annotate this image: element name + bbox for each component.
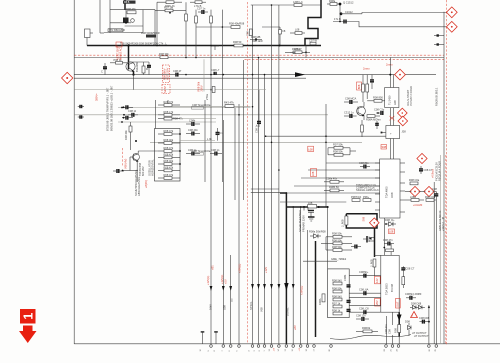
IC pins right [400, 163, 405, 212]
svg-text:R07 1k: R07 1k [332, 301, 341, 305]
svg-text:R08 47k: R08 47k [164, 165, 174, 169]
cap x377 [376, 121, 378, 124]
svg-text:V08 (4V): V08 (4V) [124, 159, 128, 169]
grey bus y137 [266, 135, 391, 137]
svg-text:C08 1J: C08 1J [128, 109, 137, 113]
cap C08b D+ x372 [371, 75, 373, 80]
R08A vertical resistor left of loop [322, 294, 325, 302]
resistor R08_50 on bus45 [234, 44, 243, 47]
ladder resistors [164, 100, 184, 179]
red dashed vertical mid [247, 2, 249, 343]
caps on left pin wires [356, 270, 369, 321]
svg-text:2xxxx: 2xxxx [386, 63, 393, 67]
svg-text:D08 D08: D08 D08 [411, 301, 422, 305]
ladder left stubs [158, 104, 164, 106]
svg-text:J08: J08 [402, 130, 407, 134]
svg-text:C08 1n: C08 1n [211, 148, 220, 152]
red L08 label [389, 229, 395, 234]
vertical resistor in loop [345, 216, 348, 225]
resistors P08 pair [352, 199, 360, 202]
svg-text:R08 47k: R08 47k [164, 152, 174, 156]
L08 component to staircase [290, 32, 305, 34]
svg-text:R08 50k: R08 50k [332, 232, 342, 236]
svg-text:P08+: P08+ [363, 195, 370, 199]
svg-text:C08 80n: C08 80n [359, 161, 369, 165]
svg-text:TDA 3653: TDA 3653 [385, 283, 389, 295]
cap C08 47 on bus74 [175, 73, 177, 77]
svg-text:C08 L7: C08 L7 [211, 68, 220, 72]
dots on right bus [179, 133, 181, 135]
svg-text:C8: C8 [282, 29, 286, 33]
svg-text:C08 TimeA/C0a: C08 TimeA/C0a [192, 149, 211, 153]
staircase thick wire [305, 0, 321, 46]
svg-text:U08: U08 [223, 305, 227, 310]
cap C08/C08A [351, 246, 355, 248]
wire vertical x110 top [109, 0, 111, 33]
svg-text:V08: V08 [260, 307, 264, 312]
wire v256 [258, 58, 260, 344]
svg-text:C08 C2p: C08 C2p [374, 107, 385, 111]
svg-text:L08: L08 [311, 171, 315, 176]
red diamond right of 4605 top [417, 153, 427, 163]
svg-text:C08_6A: C08_6A [359, 288, 369, 292]
resistor R08 L7k horiz at top [157, 1, 182, 3]
red diamond pair below TL [397, 108, 407, 118]
ladder right bus [172, 104, 180, 106]
svg-text:R08 5k0: R08 5k0 [332, 278, 342, 282]
svg-text:R43 47k: R43 47k [224, 101, 234, 105]
wire v x340 [339, 4, 341, 22]
wire from pin right to v436 [405, 191, 411, 193]
wire v315 thick lower [315, 241, 317, 337]
R08/2k resistor bottom [363, 330, 372, 333]
svg-text:OUT: OUT [396, 301, 400, 307]
svg-text:D08: D08 [405, 319, 410, 323]
svg-text:R08a 50k/R08: R08a 50k/R08 [309, 230, 326, 234]
svg-text:C312 1n: C312 1n [344, 110, 354, 114]
wire v235 [234, 108, 236, 200]
svg-text:R0/J8.0B J8/3.1: R0/J8.0B J8/3.1 [435, 87, 439, 106]
svg-text:16V/BL: 16V/BL [286, 307, 290, 316]
arrow on bus y74 [295, 72, 305, 77]
wire v x168 feeds [167, 100, 169, 106]
grey bus y122 [118, 121, 216, 123]
svg-text:R08 C0a: R08 C0a [425, 195, 436, 199]
svg-text:SIGNAL AMPL/CLK: SIGNAL AMPL/CLK [356, 188, 379, 192]
cap C2025 b [122, 117, 126, 119]
svg-text:+B1: +B1 [211, 265, 215, 270]
cap C07 1n top [198, 11, 202, 13]
cap c at y171 [113, 170, 117, 172]
svg-text:C08 C7: C08 C7 [406, 267, 415, 271]
svg-text:2xxxx: 2xxxx [363, 67, 370, 71]
svg-text:+8V: +8V [293, 325, 297, 330]
svg-text:16kV: 16kV [209, 304, 213, 310]
wire v x93 from bus45 [90, 32, 93, 34]
svg-text:L 9k: L 9k [207, 137, 213, 141]
svg-text:C08 1n: C08 1n [255, 124, 259, 133]
svg-text:+5V: +5V [223, 279, 227, 284]
wire x131 below transistor [133, 75, 135, 90]
svg-text:SCHALTNETZTEIL: SCHALTNETZTEIL [298, 209, 302, 232]
svg-text:+26V(L): +26V(L) [300, 286, 304, 295]
vertical resistor on x196 [195, 16, 198, 23]
thick vertical from bus45 to transistor [128, 46, 130, 63]
17LB cap [333, 21, 352, 23]
red diamond in loop [369, 218, 379, 228]
svg-text:GME_7M9k2: GME_7M9k2 [331, 257, 347, 261]
svg-text:+3F/3.2 - J8: +3F/3.2 - J8 [441, 217, 445, 231]
wires from 4605 left pins to buses [326, 162, 380, 164]
wire vertical x125 top [124, 0, 126, 10]
svg-text:C08b: C08b [343, 274, 347, 281]
svg-text:PCS.8V # FOUR: PCS.8V # FOUR [409, 86, 413, 106]
cap C08 C7 [420, 166, 422, 169]
resistor R8B top [123, 1, 136, 4]
transistor T08 [133, 154, 140, 161]
svg-text:R08: R08 [394, 328, 398, 333]
svg-text:R08 50: R08 50 [233, 40, 242, 44]
svg-text:220V: 220V [200, 85, 204, 91]
red box mid-left [308, 146, 314, 151]
vertical x217 [221, 10, 223, 182]
grey vertical right inner [440, 155, 442, 344]
resistor pair R07 50k / R08 50k upper [334, 146, 343, 149]
svg-text:R08 50k: R08 50k [332, 245, 342, 249]
resistor R08/C0a above diamonds [410, 182, 418, 185]
L08 box above line [308, 205, 317, 208]
svg-text:C: C [101, 70, 103, 74]
svg-text:C07 1n: C07 1n [197, 7, 206, 11]
wire v x155 [154, 10, 156, 46]
svg-text:IC08: IC08 [390, 192, 394, 198]
svg-text:1: 1 [21, 313, 35, 320]
svg-text:R08 40k/R08: R08 40k/R08 [229, 22, 245, 26]
caps C08 80n near 4605 [360, 166, 364, 168]
MOSFET Q2 right [366, 236, 368, 243]
vertical x205 [204, 100, 206, 182]
svg-text:BUL38D: BUL38D [135, 62, 139, 72]
wire y189 [251, 188, 279, 190]
svg-text:+12V(L): +12V(L) [220, 275, 224, 284]
svg-text:R07 1M: R07 1M [164, 5, 173, 9]
cap C08 47n above IC [384, 243, 388, 245]
wires below TL box [389, 108, 391, 126]
resistor R08A MOhm horizontal [367, 115, 375, 118]
wire from cluster right to diamond1 y12.5 [362, 13, 447, 14]
wire v x143 [142, 10, 144, 33]
thick elbow into v287 [251, 192, 280, 194]
svg-text:R08 5k0: R08 5k0 [332, 294, 342, 298]
svg-text:+26V(L): +26V(L) [238, 264, 242, 273]
svg-text:C08 47n: C08 47n [384, 324, 388, 334]
svg-text:S08: S08 [382, 145, 387, 149]
red dashes x122 [122, 148, 124, 166]
svg-text:B08: B08 [357, 84, 361, 89]
cap column x348 [347, 284, 351, 286]
thick v374 down from loop [374, 228, 376, 257]
svg-text:PRIMAR 220V: PRIMAR 220V [302, 215, 306, 232]
svg-text:C08 TimeA/C0a: C08 TimeA/C0a [192, 103, 211, 107]
svg-text:R07 50k: R07 50k [333, 143, 343, 147]
resistor R08a to C1512 [327, 3, 340, 5]
red label box mid [311, 169, 317, 177]
resistor R43 47k [225, 105, 234, 108]
wire h y62 [129, 61, 150, 63]
red dashed secondary horizontal [245, 58, 445, 60]
vertical x186 [185, 2, 187, 57]
box outline loop [155, 129, 181, 182]
svg-text:R08a: R08a [329, 0, 336, 3]
C08 1J cap left [128, 114, 132, 116]
grey bus y142 [150, 141, 362, 143]
cap C2025 a [122, 106, 126, 108]
svg-text:600 26V: 600 26V [141, 166, 145, 176]
C1512 dot [339, 3, 342, 6]
resistor R08 500 [146, 35, 156, 38]
thick h y207 to transistor [286, 206, 327, 208]
cap C08 1n x215 [210, 153, 215, 155]
svg-text:R08b 50: R08b 50 [329, 185, 339, 189]
red X marker on wires [390, 116, 395, 120]
wire h y7.7 [251, 4, 321, 6]
red label box far left [357, 82, 362, 90]
svg-text:+8(0V): +8(0V) [144, 180, 148, 188]
wire v308 [307, 230, 309, 344]
red diamond 1 [446, 7, 457, 18]
cap C08 1n on x259 [258, 118, 260, 122]
svg-text:C08a 40n: C08a 40n [326, 177, 338, 181]
svg-text:L08A: L08A [410, 195, 416, 199]
svg-text:Q C1512: Q C1512 [343, 0, 354, 4]
svg-text:26V: 26V [375, 300, 379, 305]
resistor stack R08 50k x3 [333, 235, 342, 238]
red marker 1 with down arrow bottom-left [19, 309, 37, 343]
bus y45 thick [87, 45, 321, 47]
svg-text:C07 W: C07 W [309, 38, 317, 42]
loop box with resistor ladder bottom [328, 269, 350, 318]
svg-text:12V: 12V [375, 278, 379, 283]
small components x128-135 y120-140 [129, 126, 132, 132]
diode D08_D+ below 4605 [386, 223, 396, 225]
long horizontals from ladder to right [172, 106, 251, 108]
J08 connector box [386, 126, 400, 139]
svg-text:R28 47k: R28 47k [164, 100, 174, 104]
svg-text:C08_C8: C08_C8 [359, 307, 369, 311]
cap C312 1n [344, 115, 350, 117]
cap C8 vertical x280 [279, 27, 281, 30]
wire v210 [210, 10, 212, 344]
red dashed vertical right inner [445, 155, 447, 345]
wire v261 [264, 75, 266, 344]
resistor R07 1M [165, 9, 173, 12]
red diamond 2 [446, 21, 457, 32]
svg-text:R08 47k: R08 47k [164, 129, 174, 133]
thick output wire with arrow below IC [398, 312, 400, 336]
vertical x157 [156, 2, 158, 45]
svg-text:AT OUTPUT: AT OUTPUT [413, 334, 429, 338]
pin numbers below border [200, 347, 437, 351]
wire v238 [238, 104, 240, 344]
ground symbol [308, 216, 315, 218]
svg-text:R08 50k: R08 50k [332, 238, 342, 242]
transistor right mid [357, 107, 366, 116]
IC TDA4605 [380, 159, 400, 218]
svg-text:MAINS AC: MAINS AC [119, 47, 123, 60]
svg-text:D08_D+: D08_D+ [385, 218, 395, 222]
resistor R08 40k [231, 26, 240, 29]
svg-text:L08: L08 [295, 28, 300, 32]
transformer T sym [211, 45, 219, 47]
svg-text:R08 1k: R08 1k [332, 308, 341, 312]
junction dot on bus45 x279 [279, 45, 281, 47]
svg-text:R08 47k: R08 47k [164, 173, 174, 177]
diode D lower [310, 235, 321, 237]
wires into TL box from top [389, 58, 391, 89]
resistor R08 800 [374, 99, 382, 102]
resistor vertical right [402, 277, 405, 285]
wire h y78.2 thin [74, 77, 306, 79]
wire v266 [271, 5, 273, 344]
pin sym b [215, 332, 217, 344]
svg-text:L08: L08 [389, 230, 394, 234]
bottom connector pins [201, 331, 218, 344]
grey vertical x204 [203, 59, 205, 91]
red hatched box 1 [162, 65, 170, 94]
IC pins left [375, 163, 380, 210]
red diamonds right of 4605 mid [410, 186, 420, 196]
svg-text:TL 5430: TL 5430 [388, 95, 392, 105]
svg-text:R08 800: R08 800 [373, 95, 383, 99]
wire v436 down [435, 196, 437, 344]
bridge rectifier TR1 B80C800 [85, 29, 91, 38]
red pin boxes left [375, 276, 381, 284]
L08W component on y52 [290, 51, 306, 53]
dot R08 MB [255, 38, 257, 40]
capacitor C8b circle [131, 19, 135, 23]
cap C1 vertical x217 [217, 128, 219, 133]
base resistor P08 [116, 62, 123, 65]
svg-text:R08 47k: R08 47k [164, 146, 174, 150]
wire v280 [278, 5, 280, 344]
IC left pin wires [349, 275, 381, 277]
inductor L08A [411, 199, 419, 202]
caps C08a 40n / R08b 50 / C08 50n column [330, 180, 339, 183]
svg-text:TDA 4605: TDA 4605 [385, 186, 389, 198]
svg-text:R08/2k: R08/2k [362, 326, 371, 330]
svg-text:L08: L08 [308, 201, 313, 205]
wire h y27 segment2 [262, 26, 280, 28]
vertical resistor x362 y126-132 [361, 125, 364, 132]
svg-text:R08A: R08A [318, 298, 322, 305]
svg-text:C08: C08 [246, 31, 250, 36]
node dot on y74 at x131 [132, 74, 134, 76]
svg-text:US: US [230, 298, 234, 302]
grey vertical top right [443, 12, 445, 344]
svg-text:T08 SKE4F2/06 D08 SKE4F2/06 C7: T08 SKE4F2/06 D08 SKE4F2/06 C7k _L [120, 41, 167, 45]
dots column x122-128 [121, 107, 123, 109]
C1612 dot [340, 12, 343, 15]
svg-text:L08: L08 [308, 147, 313, 151]
svg-text:C1612: C1612 [345, 10, 353, 14]
svg-text:C08: C08 [432, 187, 437, 191]
svg-text:C08 D08: C08 D08 [419, 316, 430, 320]
svg-text:R8.B: R8.B [124, 1, 130, 4]
wire h y32 [104, 32, 143, 34]
capacitor C8 [123, 18, 129, 23]
svg-text:R08 40k: R08 40k [164, 159, 174, 163]
svg-text:HORIZONTAL: HORIZONTAL [151, 159, 155, 176]
svg-text:REG/LM # FOUR: REG/LM # FOUR [438, 161, 442, 181]
svg-text:R08 40k: R08 40k [124, 130, 128, 140]
pin ticks near x440 [434, 35, 444, 37]
IC TDA3653 [381, 255, 399, 312]
component L7G B top [190, 1, 206, 3]
svg-text:C1: C1 [220, 131, 224, 135]
wire v x259 stub [258, 90, 260, 118]
svg-text:C08 40n: C08 40n [188, 128, 198, 132]
pin circles along bottom border [210, 345, 438, 348]
red hatched box 2 [197, 81, 204, 91]
red dashed main horizontal [74, 54, 444, 56]
red label S08 [381, 145, 387, 150]
transistor BUL38D [126, 62, 135, 71]
svg-text:C08(9)+: C08(9)+ [359, 270, 369, 274]
wire h y27 [196, 26, 239, 28]
IC TL5430 [385, 88, 399, 108]
svg-text:R08 C0a: R08 C0a [409, 178, 420, 182]
cap on bus74 x215 [213, 72, 215, 75]
wire v301 [300, 207, 302, 344]
svg-text:J_R08: J_R08 [369, 259, 373, 267]
wires below J08 to TDA4605 [389, 139, 391, 160]
svg-text:2T0a: 2T0a [205, 94, 209, 100]
svg-text:+12V: +12V [264, 267, 268, 273]
grey h y89.6 [74, 89, 266, 91]
svg-text:R08 40k: R08 40k [164, 138, 174, 142]
cap C08 C2p left of J08 [376, 112, 381, 114]
wire y27 to diamond2 [352, 22, 448, 27]
svg-text:J_R08: J_R08 [341, 219, 345, 227]
MOSFET Q lower [308, 210, 314, 212]
cap C08 MCA [344, 101, 350, 103]
svg-text:17L B: 17L B [334, 17, 341, 21]
wire v224 [222, 120, 224, 344]
svg-text:SYSCL: SYSCL [249, 301, 253, 310]
svg-text:L08 W: L08 W [294, 47, 302, 51]
svg-text:+0.8xxx: +0.8xxx [431, 168, 435, 178]
svg-text:R08 50k: R08 50k [332, 286, 342, 290]
cap C08 left of transistor [104, 63, 106, 67]
junction dots on buses [156, 4, 301, 208]
wire v287 thick [285, 193, 287, 344]
emitter resistor R08 [142, 66, 145, 73]
svg-text:B09/23.0B J8/3.1 Z08/23 +L8/: B09/23.0B J8/3.1 Z08/23 +L8/3.1 - J8/7 [110, 85, 114, 131]
wire h y9.6 [110, 9, 155, 11]
red pin box right-bottom of IC [396, 298, 401, 308]
resistor 4J08 top [294, 4, 302, 7]
wire bottom border horizontal [74, 343, 500, 345]
resistor R08C0a right [426, 199, 434, 202]
svg-text:C08b: C08b [189, 118, 196, 122]
svg-text:C08(9n) R08F: C08(9n) R08F [405, 292, 422, 296]
svg-text:R08 1kW: R08 1kW [252, 39, 263, 43]
vert comp on v251 [249, 29, 252, 36]
wire v250 [252, 5, 254, 344]
svg-text:R08 L7k: R08 L7k [164, 110, 174, 114]
wire v326 [325, 104, 327, 207]
svg-text:NETZ: NETZ [163, 86, 167, 93]
